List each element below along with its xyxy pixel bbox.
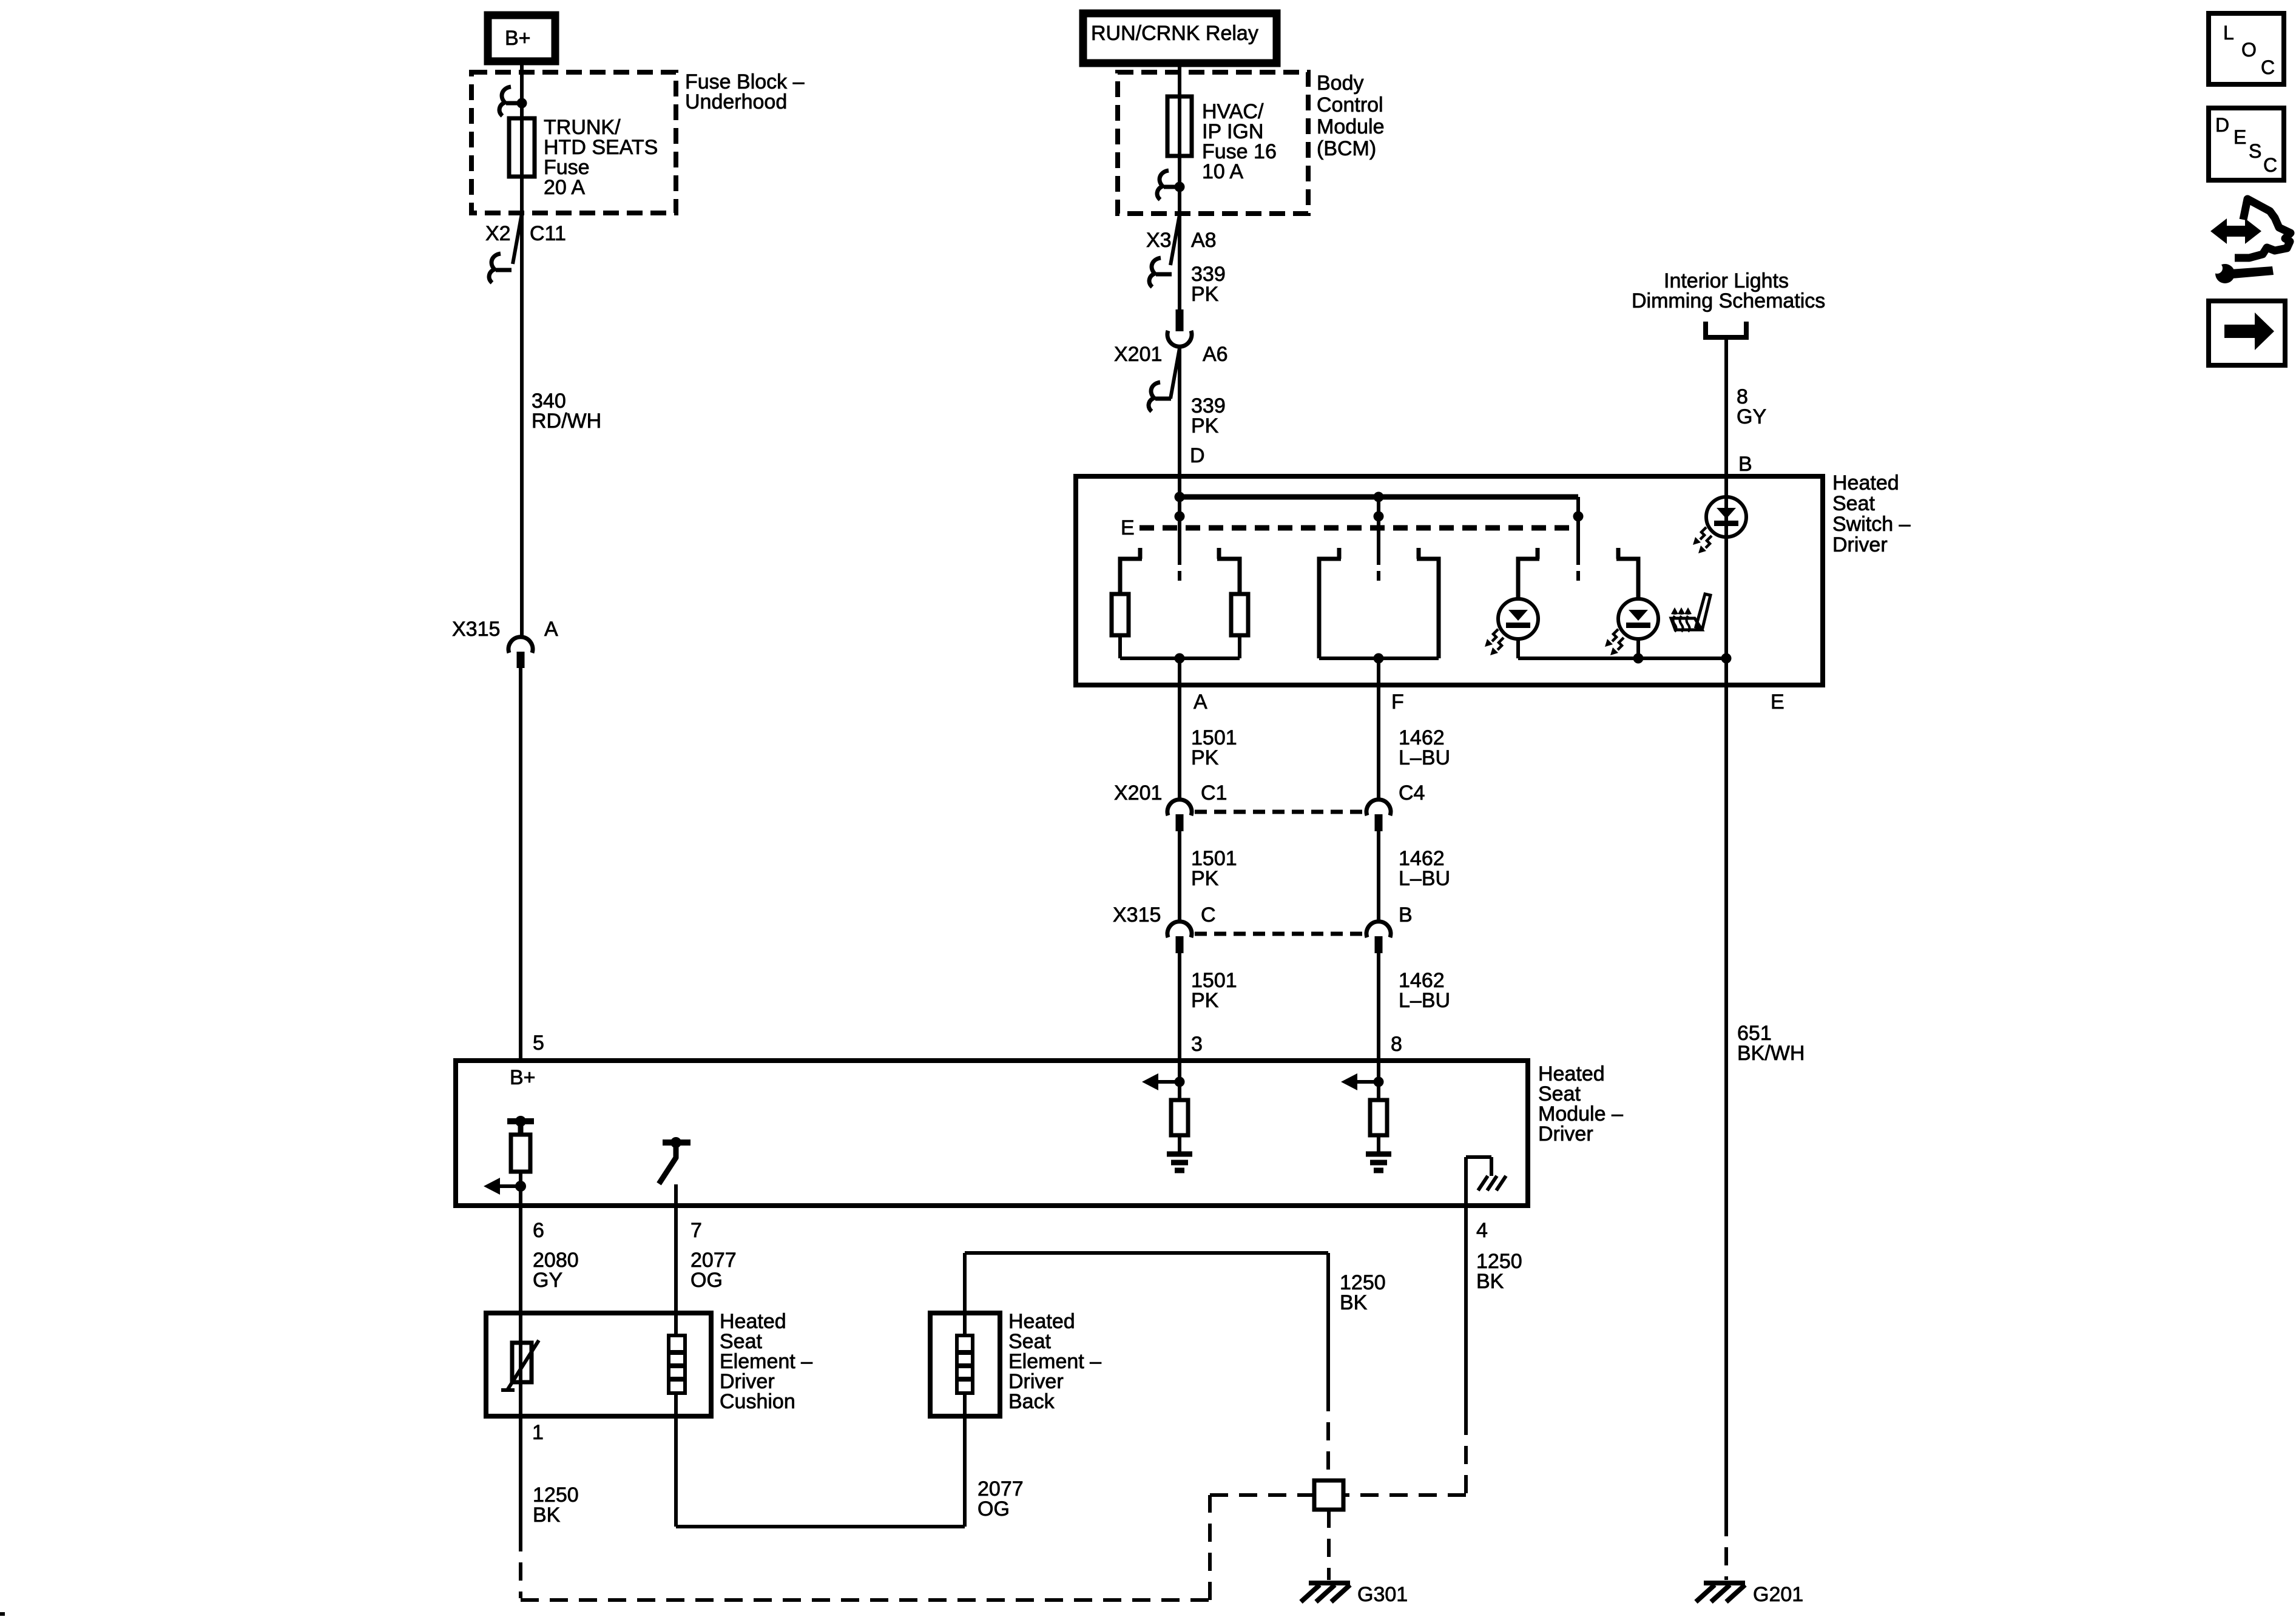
wire module pin4 internal [1464,1157,1468,1206]
svg-text:OG: OG [977,1497,1010,1521]
svg-text:7: 7 [690,1219,702,1242]
module pin7 switch [663,1139,690,1146]
svg-text:D: D [1190,444,1205,467]
svg-text:10 A: 10 A [1202,160,1243,183]
svg-text:RD/WH: RD/WH [532,410,601,433]
svg-text:Switch –: Switch – [1832,513,1911,536]
svg-text:Seat: Seat [1832,492,1875,515]
wire 1462 L-BU segment 1 [1377,685,1380,799]
svg-text:A8: A8 [1191,229,1217,252]
wire module pin8 input [1377,1061,1380,1100]
RUN/CRNK Relay power label box [1083,13,1277,63]
wire switch contact 1 [1178,476,1181,565]
svg-text:PK: PK [1191,989,1219,1012]
svg-text:Back: Back [1008,1390,1055,1413]
wire 1501 PK segment 3 [1178,953,1181,1061]
svg-text:PK: PK [1191,746,1219,769]
resistor heat level high [1231,594,1248,635]
node pin8 junction with signal arrow [1374,1077,1384,1087]
wire RUN/CRNK relay to BCM [1178,63,1181,214]
svg-text:E: E [1121,516,1135,539]
icon wrench [2215,264,2235,283]
svg-text:1: 1 [532,1421,544,1444]
svg-text:L–BU: L–BU [1399,867,1450,890]
svg-text:RUN/CRNK Relay: RUN/CRNK Relay [1091,22,1258,45]
svg-text:F: F [1391,690,1404,714]
svg-text:Heated: Heated [1832,471,1899,495]
icon DESC box [2209,108,2284,180]
LED indicator 1 [1498,599,1538,639]
svg-text:S: S [2249,140,2261,162]
svg-text:A: A [1194,690,1207,714]
switch 2 left fixed contact [1319,548,1341,658]
heater element cushion [674,1313,678,1416]
svg-text:BK/WH: BK/WH [1737,1042,1805,1065]
ground signal pin3 [1167,1152,1192,1157]
switch common bus solid line [1180,495,1578,500]
resistor pin8 pulldown [1370,1100,1387,1135]
svg-text:L–BU: L–BU [1399,746,1450,769]
ground signal pin8 [1366,1152,1391,1157]
wire switch 2 output [1319,657,1439,660]
svg-text:GY: GY [533,1269,562,1292]
svg-text:C: C [2263,154,2277,176]
svg-text:Driver: Driver [1538,1122,1593,1146]
connector X315 C [1167,922,1192,937]
svg-text:C1: C1 [1201,781,1227,805]
dashed wire to G201 [1724,1518,1728,1580]
svg-text:BK: BK [1340,1291,1368,1314]
wire 340 RD/WH lower [519,668,522,1061]
heated seat module driver box [456,1061,1528,1206]
wire 1462 L-BU segment 3 [1377,953,1380,1061]
page corner speck [0,1612,5,1616]
svg-text:C: C [1201,903,1216,927]
wire back element feed 1250 BK [963,1253,967,1313]
svg-text:X2: X2 [485,222,511,245]
wire 1250 BK from pin4 [1464,1206,1468,1417]
svg-text:8: 8 [1391,1033,1402,1056]
connector lead hook below X201 [1170,348,1180,399]
connector X315 A [508,637,533,653]
svg-text:G301: G301 [1357,1583,1408,1606]
node pin3 junction with signal arrow [1175,1077,1185,1087]
svg-text:B: B [1399,903,1413,927]
fuse block underhood dashed box [471,72,676,213]
svg-text:OG: OG [690,1269,723,1292]
icon double arrow [2210,218,2261,244]
fuse TRUNK/HTD SEATS 20A [509,118,535,177]
dashed 1250 BK to splice [1464,1417,1468,1493]
LED indicator 2 [1618,599,1658,639]
svg-text:(BCM): (BCM) [1317,137,1376,160]
fuse HVAC/IP IGN Fuse 16 10A [1167,96,1192,156]
wire 339 PK upper segment [1178,214,1181,311]
svg-text:X315: X315 [1113,903,1161,927]
wire 339 PK lower segment [1178,346,1181,476]
wire LED returns [1518,657,1726,660]
svg-text:B: B [1738,453,1752,476]
wire switch contact 2 [1377,497,1380,565]
junction dot BCM [1175,182,1185,192]
wire 1462 L-BU segment 2 [1377,831,1380,921]
svg-text:O: O [2241,39,2257,61]
dashed 1250 BK back element to splice [1326,1393,1330,1480]
svg-text:X3: X3 [1146,229,1172,252]
svg-text:Underhood: Underhood [685,90,787,113]
node module B+ tie bar [507,1118,534,1124]
svg-text:E: E [1771,690,1784,714]
heater element back [963,1313,967,1416]
connector X201 C1 [1167,800,1192,815]
thermistor [519,1313,522,1416]
connector X201 C4 [1366,800,1391,815]
svg-text:3: 3 [1191,1033,1203,1056]
icon harness repair [2235,199,2291,258]
off-page connector bracket [1706,322,1746,337]
wire 2077 OG [674,1206,678,1313]
B+ power label box [488,15,555,61]
hook terminal inside BCM [1164,185,1180,189]
connector X201 A6 [1176,309,1184,331]
svg-text:E: E [2234,126,2246,148]
svg-text:Body: Body [1317,72,1364,95]
wire 340 RD/WH [520,213,524,636]
resistor heat level low [1112,594,1129,635]
switch 3 left fixed contact [1518,548,1539,599]
wire 2077 OG element link [674,1416,678,1527]
ground G201 [1704,1581,1745,1585]
svg-text:GY: GY [1737,405,1766,428]
wire B+ to fuse block [520,61,524,213]
svg-text:6: 6 [533,1219,544,1242]
LED indicator 3 backlight [1706,497,1746,537]
wire 1501 PK segment 1 [1178,685,1181,799]
dashed connector bridge X201 [1195,810,1363,814]
wire module pin3 input [1178,1061,1181,1100]
svg-text:PK: PK [1191,414,1219,437]
svg-text:L–BU: L–BU [1399,989,1450,1012]
ground G301 [1309,1581,1350,1585]
hook terminal inside fuse block [506,101,522,106]
switch 1 left fixed contact [1120,548,1142,594]
svg-text:B+: B+ [505,27,531,50]
heated seat element driver cushion box [486,1313,711,1416]
svg-text:Driver: Driver [1832,533,1888,556]
svg-text:G201: G201 [1753,1583,1803,1606]
wire 1250 BK from element [519,1416,522,1533]
switch 1 right fixed contact [1217,548,1240,594]
svg-text:A6: A6 [1203,343,1228,366]
svg-text:Cushion: Cushion [720,1390,795,1413]
svg-text:Dimming Schematics: Dimming Schematics [1632,289,1825,312]
svg-text:4: 4 [1476,1219,1488,1242]
svg-text:PK: PK [1191,283,1219,306]
node pin6 junction with signal arrow [515,1181,526,1192]
svg-text:C4: C4 [1399,781,1425,805]
icon forward arrow box [2209,301,2285,365]
svg-text:L: L [2223,22,2234,44]
icon LOC box [2209,13,2284,84]
wire B through switch to pin E [1724,476,1728,685]
resistor module sense [511,1135,530,1172]
wire switch contact 3 [1576,497,1580,565]
heated seat icon [1671,594,1710,630]
heated seat element driver back box [930,1313,1000,1416]
svg-text:20 A: 20 A [544,176,585,199]
svg-text:C: C [2261,56,2275,78]
svg-text:Module: Module [1317,115,1385,138]
dashed connector bridge X315 [1195,932,1363,936]
wire 1501 PK segment 2 [1178,831,1181,921]
splice S301 [1314,1480,1343,1510]
ground chassis module pin4 [1478,1176,1506,1190]
connector X3 A8 pass-through [1170,215,1180,265]
wire 2080 GY [519,1206,522,1313]
svg-text:A: A [544,618,558,641]
svg-text:D: D [2215,114,2229,136]
svg-text:B+: B+ [510,1066,536,1089]
dashed splice to G301 [1327,1510,1331,1580]
svg-text:Control: Control [1317,93,1383,116]
wire 8 GY [1724,337,1728,476]
wire switch 1 output [1120,657,1240,660]
switch 3 right fixed contact [1616,548,1638,599]
svg-text:X201: X201 [1114,781,1162,805]
svg-text:BK: BK [1476,1270,1504,1293]
svg-text:5: 5 [533,1031,544,1055]
svg-text:PK: PK [1191,867,1219,890]
connector X2 C11 pass-through [513,214,522,264]
svg-text:BK: BK [533,1504,561,1527]
body control module dashed box [1118,72,1308,214]
svg-text:C11: C11 [530,222,566,245]
junction dot fuse block [517,98,527,109]
switch 2 right fixed contact [1417,548,1439,658]
wire 651 BK/WH [1724,685,1728,1518]
svg-text:X201: X201 [1114,343,1162,366]
svg-text:X315: X315 [452,618,500,641]
heated seat switch driver box [1076,476,1823,685]
resistor pin3 pulldown [1171,1100,1188,1135]
dashed 1250 BK routing [519,1533,522,1598]
connector X315 B [1366,922,1391,937]
